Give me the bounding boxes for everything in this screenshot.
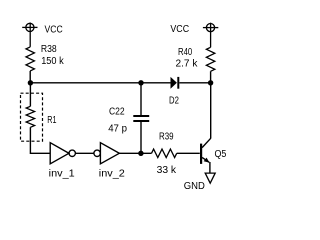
svg-text:VCC: VCC (45, 24, 63, 35)
wire right node to Q5 collector (210, 83, 212, 139)
svg-text:inv_1: inv_1 (49, 169, 75, 180)
wire R38 bottom to node (29, 71, 31, 83)
node junction right (dot) (208, 80, 213, 85)
inverter inv_1 (50, 143, 75, 164)
svg-text:R40: R40 (178, 47, 193, 58)
svg-text:R38: R38 (41, 44, 57, 55)
svg-text:R1: R1 (47, 115, 57, 126)
wire inv_2 output to R39 (119, 152, 151, 154)
node junction bottom (dot) (138, 151, 143, 156)
node junction left (dot) (28, 80, 33, 85)
svg-text:VCC: VCC (170, 24, 189, 35)
power symbol VCC (right) (203, 23, 218, 48)
resistor R1 (26, 106, 34, 127)
ground symbol (205, 173, 215, 183)
wire C22 bottom to bottom rail (140, 122, 142, 154)
svg-text:2.7 k: 2.7 k (176, 58, 199, 69)
resistor R39 (152, 149, 177, 157)
svg-text:33 k: 33 k (157, 165, 178, 176)
wire top rail (node to D2 anode) (30, 82, 170, 84)
wire inv_1 to inv_2 (75, 152, 94, 154)
resistor R40 (206, 47, 214, 71)
wire node to R1 top (29, 83, 31, 107)
svg-text:D2: D2 (169, 96, 179, 107)
wire R1 bottom to inv_1 input (30, 127, 50, 153)
diode D2 (171, 77, 179, 89)
transistor Q5 (201, 138, 211, 173)
inverter inv_2 (input bubble) (94, 143, 119, 164)
wire top node to C22 (140, 83, 142, 115)
svg-text:Q5: Q5 (215, 149, 227, 160)
resistor R38 (26, 47, 34, 71)
svg-text:R39: R39 (159, 132, 174, 143)
svg-text:150 k: 150 k (41, 56, 64, 67)
wire R39 to Q5 base (177, 152, 200, 154)
power symbol VCC (left) (22, 23, 37, 47)
svg-text:C22: C22 (109, 107, 125, 118)
wire R40 bottom to right node (210, 71, 212, 83)
node junction top of C22 (dot) (138, 80, 143, 85)
dashed box around R1 (21, 93, 43, 141)
capacitor C22 (133, 116, 149, 121)
svg-text:GND: GND (184, 181, 205, 192)
svg-text:47 p: 47 p (108, 123, 127, 134)
svg-text:inv_2: inv_2 (99, 169, 125, 180)
wire D2 cathode to right node (179, 82, 210, 84)
